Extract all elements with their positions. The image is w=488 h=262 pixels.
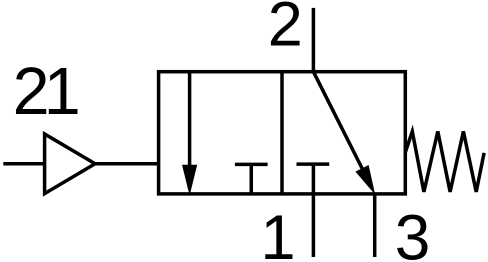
down-arrow head	[182, 165, 197, 196]
port 3 pipe	[373, 194, 377, 257]
position divider	[280, 72, 284, 194]
return spring	[405, 131, 484, 192]
svg-text:3: 3	[395, 202, 431, 262]
svg-text:1: 1	[44, 55, 81, 129]
blocked port T (left position) bar	[235, 163, 268, 167]
pilot triangle	[45, 134, 96, 194]
port 1 pipe	[312, 164, 316, 257]
valve body outline	[159, 72, 406, 194]
svg-text:2: 2	[268, 0, 303, 59]
pilot line left	[3, 162, 44, 166]
pilot line to body	[96, 162, 159, 166]
svg-text:1: 1	[260, 203, 295, 262]
diagonal arrowhead	[355, 165, 375, 195]
diagonal flow path 2 to 3 (right position)	[313, 72, 362, 170]
port 2 pipe	[312, 8, 316, 72]
blocked port T (right position) bar	[297, 162, 330, 166]
blocked port T (left position) stem	[250, 164, 254, 194]
down-arrow flow path (left position)	[188, 72, 192, 168]
